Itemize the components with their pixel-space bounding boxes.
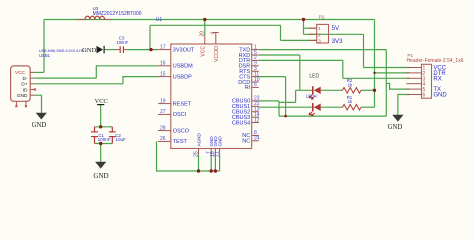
svg-text:GND: GND (217, 136, 222, 147)
svg-text:GND: GND (32, 122, 47, 129)
svg-text:P2: P2 (319, 14, 325, 19)
svg-text:USBDP: USBDP (173, 74, 192, 80)
svg-text:3: 3 (318, 38, 321, 44)
svg-text:1k: 1k (348, 82, 353, 87)
svg-text:15: 15 (160, 71, 166, 77)
svg-text:TEST: TEST (173, 139, 188, 145)
svg-text:10uF: 10uF (115, 137, 126, 142)
svg-text:OSCO: OSCO (173, 128, 190, 134)
svg-text:VCC: VCC (201, 46, 207, 57)
svg-text:USB1: USB1 (39, 53, 51, 58)
svg-text:AGND: AGND (196, 133, 201, 147)
svg-text:26: 26 (160, 136, 166, 142)
svg-text:6: 6 (254, 82, 257, 88)
svg-text:CBUS4: CBUS4 (232, 120, 250, 126)
svg-text:GND: GND (433, 93, 447, 99)
svg-text:MMZ2012Y152BT000: MMZ2012Y152BT000 (93, 11, 142, 17)
svg-text:USBDM: USBDM (173, 64, 193, 70)
svg-text:GND: GND (388, 124, 403, 131)
svg-text:17: 17 (160, 44, 166, 50)
svg-text:16: 16 (160, 61, 166, 67)
svg-text:RI: RI (245, 85, 251, 91)
svg-text:GND: GND (17, 93, 28, 99)
svg-text:GND: GND (93, 172, 108, 180)
svg-text:ID: ID (23, 87, 28, 93)
svg-text:VCCIO: VCCIO (214, 46, 220, 62)
svg-text:Header-Female-2.54_1x6: Header-Female-2.54_1x6 (407, 58, 464, 64)
svg-text:20: 20 (199, 31, 205, 37)
svg-text:100nF: 100nF (116, 40, 128, 45)
svg-text:OSCI: OSCI (173, 112, 187, 118)
svg-text:1: 1 (318, 26, 321, 32)
svg-text:100nF: 100nF (98, 137, 111, 142)
svg-text:GND: GND (82, 47, 97, 54)
svg-text:LEDV: LEDV (306, 94, 319, 99)
svg-text:19: 19 (160, 98, 166, 104)
svg-text:3V3: 3V3 (332, 38, 344, 45)
svg-text:VCC: VCC (15, 70, 26, 76)
svg-text:2: 2 (318, 32, 321, 38)
svg-text:D+: D+ (21, 82, 27, 88)
svg-text:27: 27 (160, 109, 166, 115)
svg-text:3V3OUT: 3V3OUT (173, 47, 195, 53)
svg-text:RX: RX (433, 76, 441, 82)
svg-text:4: 4 (210, 32, 216, 35)
svg-text:1k: 1k (348, 99, 353, 104)
svg-text:25: 25 (193, 151, 199, 157)
svg-text:24: 24 (254, 136, 260, 142)
svg-text:RESET: RESET (173, 101, 192, 107)
svg-text:LED: LED (309, 74, 319, 80)
svg-text:U1: U1 (156, 17, 163, 23)
svg-text:5V: 5V (332, 25, 340, 32)
svg-text:21: 21 (214, 151, 220, 157)
svg-text:6: 6 (423, 93, 426, 99)
svg-text:12: 12 (254, 117, 260, 123)
svg-text:28: 28 (160, 125, 166, 131)
svg-text:D-: D- (22, 76, 27, 82)
svg-text:NC: NC (242, 139, 250, 145)
